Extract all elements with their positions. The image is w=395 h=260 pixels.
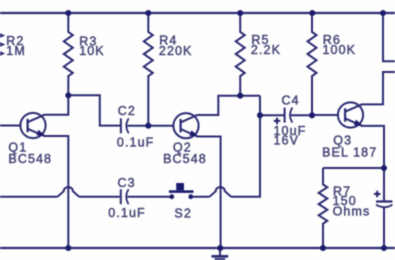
wire bottom rail <box>0 247 395 249</box>
svg-text:0.1uF: 0.1uF <box>117 136 154 150</box>
node top R5 <box>237 10 243 16</box>
svg-text:BC548: BC548 <box>163 152 207 166</box>
node top R4 <box>145 10 151 16</box>
node C4 left <box>257 112 263 118</box>
svg-text:2.2K: 2.2K <box>251 43 281 57</box>
wire top rail <box>0 12 395 14</box>
wire hop over Q2 emitter <box>210 187 232 197</box>
wire C4 node <box>260 114 284 116</box>
wire top-right stub <box>383 13 395 61</box>
switch S2 <box>169 183 194 199</box>
capacitor C3 <box>121 189 172 204</box>
wire long bottom signal line with hops <box>0 196 58 198</box>
resistor R2 <box>0 31 3 58</box>
resistor R6 <box>308 13 317 115</box>
svg-text:C2: C2 <box>118 104 136 118</box>
svg-text:C4: C4 <box>282 94 300 108</box>
svg-text:S2: S2 <box>174 206 192 220</box>
svg-text:100K: 100K <box>323 43 357 57</box>
resistor R7 <box>319 168 328 248</box>
svg-text:1M: 1M <box>6 44 26 58</box>
svg-text:BEL 187: BEL 187 <box>322 146 377 160</box>
transistor Q3 <box>312 72 395 201</box>
transistor Q2 <box>173 96 260 248</box>
capacitor C2 <box>121 118 173 133</box>
node R3 collector <box>65 92 71 98</box>
transistor Q1 <box>0 95 68 248</box>
svg-text:10K: 10K <box>79 44 105 58</box>
wire hop over Q1 emitter <box>58 187 80 197</box>
plus sign C4 <box>274 118 381 198</box>
resistor R5 <box>236 13 245 96</box>
svg-text:C3: C3 <box>118 176 136 190</box>
node top R6 <box>309 10 315 16</box>
node bottom Q1 <box>65 245 71 251</box>
resistor R3 <box>64 13 73 95</box>
svg-text:220K: 220K <box>159 44 193 58</box>
capacitor electrolytic output <box>376 202 392 249</box>
node bottom gnd <box>217 245 223 251</box>
node bottom R7 <box>320 245 326 251</box>
capacitor C4 <box>285 108 312 123</box>
svg-text:16V: 16V <box>274 134 300 148</box>
node top right <box>380 10 386 16</box>
node R5 collector <box>237 93 243 99</box>
node R6 base <box>309 112 315 118</box>
node R4 base <box>145 123 151 129</box>
node top R3 <box>65 10 71 16</box>
ground <box>212 248 229 259</box>
svg-text:BC548: BC548 <box>8 152 52 166</box>
plus sign output cap <box>374 191 381 198</box>
resistor R4 <box>144 13 153 126</box>
node R7 emitter <box>381 165 387 171</box>
node bottom cap <box>381 245 387 251</box>
wire R3 node to C2 <box>68 95 120 125</box>
svg-text:0.1uF: 0.1uF <box>108 206 145 220</box>
svg-text:Ohms: Ohms <box>333 204 371 218</box>
wire R7 branch to emitter <box>323 167 384 169</box>
